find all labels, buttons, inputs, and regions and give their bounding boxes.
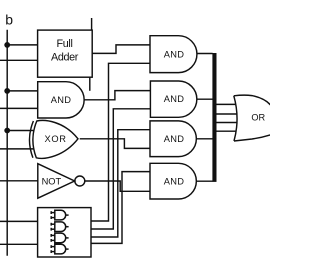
wire: AND A1 output to AND U3 input 1 (84, 91, 150, 100)
mini AND gate m1 (51, 210, 69, 220)
wire: AND U4 output (196, 138, 212, 140)
svg-text:Adder: Adder (51, 52, 79, 64)
wire: b to AND A1 input 1 (7, 90, 38, 92)
svg-text:AND: AND (164, 94, 184, 104)
wire: bundle to OR input 3 (217, 122, 238, 124)
wire: a to NOT input (0, 180, 38, 182)
AND gate U3 (150, 81, 196, 117)
node dot 3 (4, 128, 10, 134)
wire: decoder out 1 to AND U2 input 2 (91, 63, 150, 221)
wire: XOR output to AND U4 input 2 (80, 139, 150, 149)
wire: bundle to OR input 4 (217, 130, 237, 132)
wire: NOT output to AND U5 input 2 (85, 181, 150, 191)
OR gate U7 (234, 95, 271, 141)
XOR gate X1 (29, 120, 78, 158)
wire: AND U5 output (196, 180, 212, 182)
wire: decoder out 3 to AND U4 input 1 (91, 130, 150, 237)
AND gate U4 (150, 121, 196, 157)
wire: input to decoder box 1 (0, 220, 38, 222)
wire: b to Full Adder input 1 (7, 44, 37, 46)
mini AND gate m3 (51, 233, 69, 243)
svg-text:AND: AND (164, 134, 184, 144)
NOT gate N1 (38, 164, 85, 199)
AND gate U5 (150, 163, 196, 199)
wire: AND U3 output (197, 98, 213, 100)
wire: a to Full Adder input 2 (0, 59, 38, 61)
wire: bundle to OR input 1 (217, 103, 236, 105)
wire: decoder out 4 to AND U5 input 1 (91, 172, 150, 244)
wire: stub below Full Adder (89, 77, 91, 91)
svg-text:AND: AND (164, 176, 184, 186)
mini AND gate m2 (51, 222, 69, 232)
Full Adder U1 (38, 30, 93, 77)
AND gate U2 (150, 36, 197, 73)
node dot 2 (4, 88, 10, 94)
wire: Full Adder output to AND U2 input 1 (92, 45, 150, 54)
mini AND gate m4 (51, 244, 69, 254)
svg-text:Full: Full (57, 38, 73, 50)
node dot 1 (4, 42, 10, 48)
wire: stub above Full Adder (91, 18, 93, 30)
wire: bundle to OR input 2 (217, 113, 238, 115)
wire: decoder out 2 to AND U3 input 2 (91, 109, 150, 229)
wire: a to AND A1 input 2 (0, 107, 38, 109)
input bus b (vertical) (6, 30, 8, 256)
wire: b to XOR input 1 (7, 130, 33, 132)
wire: AND U2 output (197, 53, 213, 55)
AND gate A1 (left column) (38, 82, 84, 118)
decoder box U6 (38, 208, 91, 257)
wire: a to XOR input 2 (0, 148, 34, 150)
svg-text:AND: AND (51, 95, 72, 105)
svg-text:OR: OR (251, 112, 265, 122)
svg-text:XOR: XOR (44, 134, 66, 144)
wire: input to decoder box 2 (0, 243, 38, 245)
svg-text:NOT: NOT (42, 176, 62, 186)
svg-text:AND: AND (164, 49, 184, 59)
svg-text:b: b (5, 12, 13, 28)
bundle bus (stacked verticals) (212, 53, 216, 182)
